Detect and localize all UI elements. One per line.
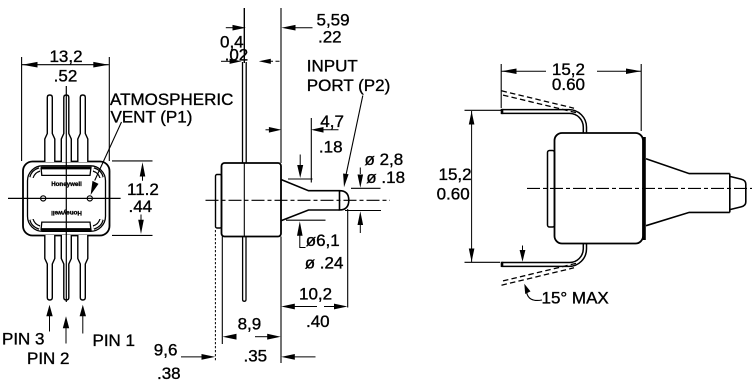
top 15,2 dim extension right: [640, 64, 642, 131]
arrow at body-right pointing left (9,6 pair): [281, 354, 295, 360]
top pin bent: [502, 110, 587, 133]
leader line ATMOSPHERIC VENT: [95, 122, 122, 181]
svg-text:PIN 1: PIN 1: [93, 331, 136, 350]
arrow left 15,2 down: [469, 249, 475, 262]
arrow 8,9 right: [267, 334, 281, 340]
top 15,2 dim extension left: [500, 64, 502, 108]
body rectangle right view: [555, 133, 644, 244]
pin 1 top (right): [78, 95, 88, 162]
body rectangle: [222, 163, 282, 237]
bottom pin dashed 15deg: [502, 263, 577, 285]
dimension 10,2 extension line: [347, 209, 349, 308]
pin 2 bottom lead: [61, 235, 71, 300]
arrow 0,4 left: [230, 59, 242, 64]
svg-text:ATMOSPHERIC: ATMOSPHERIC: [110, 90, 233, 109]
arrow 5,59 left: [233, 25, 246, 31]
corner slot top-left: [32, 170, 40, 178]
arrow 5,59 right: [281, 25, 295, 31]
extension line flange left below: [214, 230, 216, 362]
dimension 9,6 line: [181, 356, 203, 358]
inner face outline: [28, 166, 106, 232]
dimension 13,2 line: [22, 64, 109, 66]
corner slot bottom-left: [32, 220, 40, 228]
svg-text:ø6,1: ø6,1: [306, 231, 340, 250]
corner slot top-right: [94, 170, 102, 178]
left 15,2 top witness: [465, 109, 502, 111]
svg-text:8,9: 8,9: [238, 315, 262, 334]
dimension o6,1 bottom witness: [286, 219, 326, 221]
arrow 13,2 right: [93, 62, 108, 68]
vent hole left: [41, 196, 46, 201]
arrow 10,2 left: [281, 304, 295, 310]
arrow top 15,2 right: [626, 69, 641, 75]
port nipple: [730, 176, 746, 209]
pin3 callout arrow: [46, 305, 52, 317]
arrow 13,2 left: [22, 62, 37, 68]
pin 3 top (left): [45, 95, 55, 162]
dimension 11.2 top witness: [112, 160, 153, 162]
svg-text:PIN 3: PIN 3: [2, 330, 45, 349]
svg-text:9,6: 9,6: [154, 341, 178, 360]
svg-text:.40: .40: [306, 312, 330, 331]
small arrow onto bottom pin: [522, 246, 524, 252]
dimension o6,1 top witness: [288, 178, 313, 180]
o2,8 bottom witness: [345, 210, 381, 212]
body outline: [23, 162, 110, 236]
corner slot top-right: [94, 170, 102, 178]
svg-text:13,2: 13,2: [49, 47, 82, 66]
svg-text:.18: .18: [319, 138, 343, 157]
svg-text:4,7: 4,7: [320, 112, 344, 131]
dimension 13,2 extension line right: [108, 57, 110, 161]
svg-text:.44: .44: [129, 197, 153, 216]
pin 3 bottom lead: [45, 235, 55, 300]
svg-text:10,2: 10,2: [299, 285, 332, 304]
svg-text:.52: .52: [54, 67, 78, 86]
svg-text:PORT (P2): PORT (P2): [307, 76, 390, 95]
svg-text:.35: .35: [244, 347, 268, 366]
bottom rib bar: [41, 222, 91, 230]
svg-text:ø 2,8: ø 2,8: [365, 150, 404, 169]
arrow o6,1 down: [299, 155, 301, 167]
arrow 11.2 up: [140, 162, 146, 176]
svg-text:ø .18: ø .18: [366, 168, 405, 187]
svg-text:0.60: 0.60: [437, 185, 470, 204]
mounting flange: [216, 175, 222, 229]
port step line: [729, 174, 731, 213]
wire top thin: [243, 8, 245, 63]
extension line body right below: [280, 237, 282, 364]
corner slot bottom-right: [94, 220, 102, 228]
arrow o2,8 up: [358, 211, 364, 225]
svg-text:INPUT: INPUT: [307, 57, 358, 76]
pin 2 top (middle): [61, 95, 71, 162]
top rib bar: [41, 167, 91, 175]
arrow 10,2 right: [334, 304, 348, 310]
arrow 11.2 down: [138, 220, 144, 234]
top 15,2 dim line: [502, 70, 547, 72]
left 15,2 dim line: [471, 111, 473, 262]
vent hole right (P1): [87, 196, 92, 201]
leader INPUT PORT: [346, 96, 363, 175]
port funnel right view: [646, 159, 730, 226]
centerline right view: [527, 187, 752, 189]
arrow top 15,2 left: [501, 69, 516, 75]
left 15,2 bottom witness: [465, 261, 501, 263]
bottom pin end cap: [501, 262, 504, 267]
horizontal centerline: [8, 197, 121, 199]
wire upper double: [242, 62, 244, 163]
dimension 11.2 bottom witness: [112, 234, 153, 236]
bracket under o2,8: [359, 168, 361, 175]
input port funnel: [281, 180, 340, 221]
svg-text:.38: .38: [157, 364, 181, 380]
arrow 0,4 right: [259, 59, 271, 64]
leader arrowhead INPUT PORT: [343, 174, 349, 188]
svg-text:15,2: 15,2: [439, 165, 472, 184]
svg-text:0.60: 0.60: [552, 75, 585, 94]
leader arrowhead to vent hole: [91, 181, 99, 195]
dimension 5,59 extension line: [280, 8, 282, 163]
vertical centerline: [65, 86, 67, 302]
arrow 4,7 right: [311, 127, 324, 133]
bottom pin bent: [502, 243, 587, 266]
svg-text:VENT (P1): VENT (P1): [111, 108, 193, 127]
port base thick line: [643, 137, 646, 240]
wire bottom lead: [243, 237, 246, 302]
svg-text:ø .24: ø .24: [305, 254, 344, 273]
corner slot bottom-left: [32, 220, 40, 228]
centerline middle view: [206, 199, 391, 201]
corner slot bottom-right: [94, 220, 102, 228]
arrow 9,6 right-pointing: [202, 354, 216, 360]
top pin dashed 15deg: [502, 91, 577, 113]
dimension 13,2 extension line left: [21, 57, 23, 161]
extension line body left below: [221, 237, 223, 345]
arrow o2,8 down: [358, 175, 364, 188]
svg-text:PIN 2: PIN 2: [27, 349, 70, 368]
pin 1 bottom lead: [78, 235, 88, 300]
arrow o6,1 up: [297, 221, 303, 236]
port tube cap: [340, 191, 349, 210]
arrow 8,9 left: [223, 334, 237, 340]
pin1 callout arrow: [80, 305, 86, 317]
wire through body: [243, 163, 245, 236]
top pin end cap: [501, 109, 504, 114]
svg-text:15° MAX: 15° MAX: [542, 289, 609, 308]
o2,8 top witness: [351, 187, 381, 189]
dimension 4,7 extension line: [310, 118, 312, 183]
arrow 4,7 left: [269, 127, 282, 133]
label 15 deg MAX leader: [527, 292, 543, 301]
pin2 callout arrow: [63, 316, 69, 328]
flange right view: [548, 151, 555, 228]
svg-text:.22: .22: [318, 28, 342, 47]
arrow left 15,2 up: [469, 111, 475, 124]
